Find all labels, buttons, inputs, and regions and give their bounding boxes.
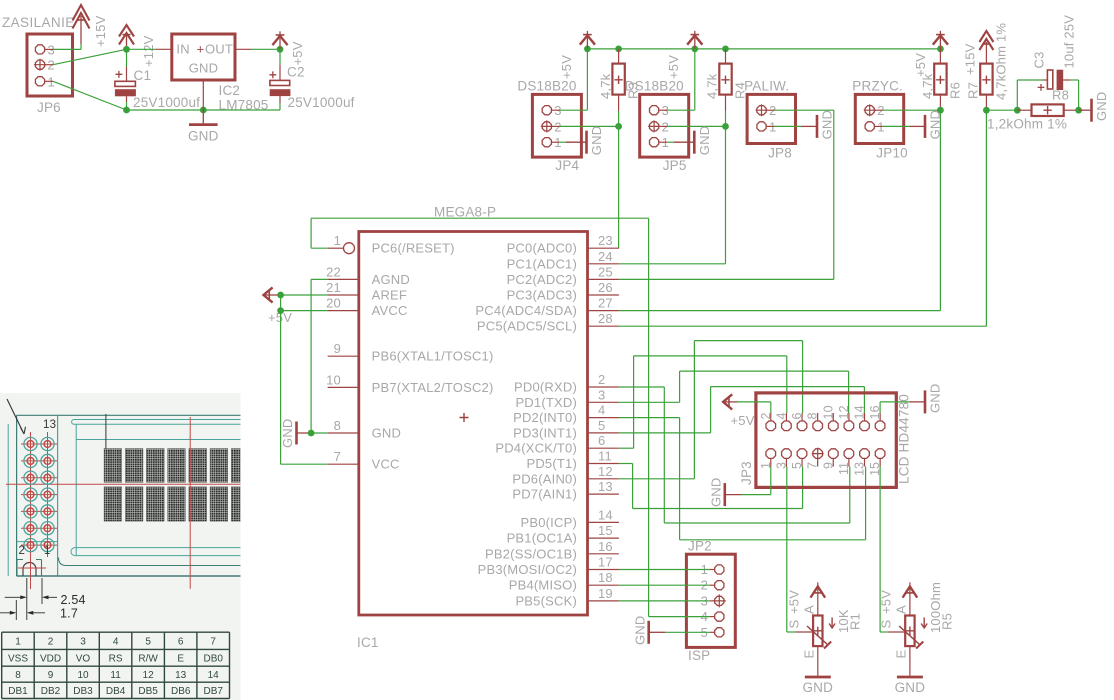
IC1 pin 22 lead [328, 278, 359, 280]
wire PD4 out [619, 447, 634, 449]
R7 top lead [985, 42, 987, 64]
svg-text:PD1(TXD): PD1(TXD) [515, 395, 577, 410]
JP5 pin2 lead [659, 125, 667, 127]
JP3 pin 14 [860, 421, 870, 431]
svg-text:14: 14 [598, 507, 613, 522]
svg-text:PC5(ADC5/SCL): PC5(ADC5/SCL) [477, 319, 577, 334]
svg-text:GND: GND [280, 419, 295, 449]
svg-text:6: 6 [178, 637, 184, 648]
svg-text:9: 9 [334, 341, 341, 356]
svg-text:DB1: DB1 [8, 686, 28, 697]
supply +5V arrow (AREF, pointing left) [265, 294, 278, 296]
svg-text:DB0: DB0 [203, 654, 223, 665]
svg-text:JP5: JP5 [663, 158, 687, 173]
IC1 pin 24 lead [588, 263, 619, 265]
IC1 pin 12 lead [588, 478, 619, 480]
IC1 pin 8 lead [328, 432, 359, 434]
svg-text:PB2(SS/OC1B): PB2(SS/OC1B) [485, 546, 577, 561]
svg-text:A: A [801, 605, 816, 614]
JP3 pin 14 lead [864, 413, 866, 421]
svg-text:+5V: +5V [559, 55, 574, 79]
svg-text:12: 12 [837, 405, 851, 419]
svg-text:R/W: R/W [138, 654, 158, 665]
wire PD2 rail [680, 539, 866, 541]
wire PB4 MISO to ISP2 [619, 584, 710, 586]
svg-text:2: 2 [598, 372, 605, 387]
IC1 pin 10 lead [328, 386, 359, 388]
wire PD1 up [679, 371, 681, 402]
svg-text:4: 4 [113, 637, 119, 648]
R1 S lead [796, 631, 814, 633]
wire down to JP3 pin 14 [863, 387, 865, 413]
svg-text:LCD HD44780: LCD HD44780 [897, 394, 912, 484]
JP3 pin 4 [782, 421, 792, 431]
svg-text:19: 19 [598, 586, 613, 601]
svg-text:JP10: JP10 [876, 146, 908, 161]
svg-text:5: 5 [790, 462, 804, 469]
wire JP5.3 to +5V [667, 109, 695, 111]
IC1 origin cross [460, 413, 469, 422]
JP4 pin 2 [542, 122, 551, 131]
svg-text:PD3(INT1): PD3(INT1) [513, 425, 577, 440]
wire down to JP3 pin 2 [770, 402, 772, 413]
svg-text:IN: IN [176, 42, 189, 57]
svg-text:AGND: AGND [372, 272, 410, 287]
R3 bottom lead [618, 95, 620, 111]
R3 top lead [618, 49, 620, 64]
capacitor C3 [1047, 70, 1052, 89]
svg-text:PALIW.: PALIW. [744, 79, 789, 94]
JP3 pin 9 lead [832, 458, 834, 466]
wire from C3 right [1070, 79, 1078, 81]
C3 polarity + [1038, 84, 1045, 91]
supply +15V symbol [80, 16, 82, 44]
svg-text:PRZYC.: PRZYC. [852, 79, 903, 94]
wire PD6 across [694, 340, 802, 342]
R5 origin cross [906, 627, 914, 635]
wire JP3 pin16 up [879, 402, 881, 413]
ground [723, 483, 726, 506]
svg-text:E: E [801, 650, 816, 659]
svg-text:LM7805: LM7805 [219, 98, 269, 113]
R5 E lead [909, 646, 911, 676]
svg-text:PD5(T1): PD5(T1) [526, 456, 577, 471]
wire reset to pin1 [311, 247, 328, 249]
svg-text:+5V: +5V [913, 53, 928, 77]
R8 left lead [1017, 109, 1031, 111]
JP8 pin 2 [757, 106, 766, 115]
svg-text:ISP: ISP [688, 648, 710, 663]
R1 E lead [817, 646, 819, 676]
svg-text:PB1(OC1A): PB1(OC1A) [507, 531, 577, 546]
JP3 pin 3 lead [785, 458, 787, 466]
wire PD1 across [680, 370, 849, 372]
wire JP6.1 to GND rail (diagonal) [53, 81, 127, 110]
svg-text:PB3(MOSI/OC2): PB3(MOSI/OC2) [478, 562, 577, 577]
wire JP5 data down to PC1 [725, 126, 727, 263]
wire PD4 across [634, 355, 787, 357]
IC1 pin 13 lead [588, 493, 619, 495]
+5V arrow (R6) [939, 31, 941, 49]
R6 top lead [939, 49, 941, 64]
wire R7 to R8 [986, 109, 1017, 111]
wire AGND down to GND [310, 279, 312, 433]
JP2 pin 1 lead [710, 569, 715, 571]
svg-text:GND: GND [633, 616, 648, 646]
svg-text:4,7k: 4,7k [598, 73, 613, 99]
ground GND at R8 [1079, 109, 1091, 111]
LCD pin pads [21, 443, 57, 445]
svg-text:6: 6 [598, 433, 605, 448]
JP10 pin 2 [865, 106, 874, 115]
wire PD6 up [693, 341, 695, 479]
svg-text:5: 5 [145, 637, 151, 648]
capacitor C1 [115, 81, 135, 86]
capacitor C2 [270, 80, 290, 85]
svg-text:+5V: +5V [666, 55, 681, 79]
svg-text:4,7k: 4,7k [920, 73, 935, 99]
svg-text:AVCC: AVCC [372, 303, 408, 318]
wire JP3 pin1 left [741, 494, 770, 496]
wire JP8.1 to GND [775, 125, 803, 127]
JP3 pin 11 lead [848, 458, 850, 466]
JP3 pin 10 lead [832, 413, 834, 421]
wire down to JP3 pin 6 [802, 341, 804, 413]
IC2 GND pin [202, 80, 204, 110]
wire +5V to JP3 pin2 col [737, 401, 771, 403]
wire JP4 data down to PC0 [618, 126, 620, 248]
LCD centerlines [6, 483, 241, 485]
svg-text:1: 1 [15, 637, 21, 648]
svg-text:DS18B20: DS18B20 [517, 79, 576, 94]
svg-text:1: 1 [334, 233, 341, 248]
ground GND at JP10 [910, 125, 925, 127]
ground GND at JP8 [802, 125, 817, 127]
junction JP4 data/R3 [615, 123, 622, 130]
junction +5V arrow 2 [691, 46, 698, 53]
JP3 pin 6 lead [801, 413, 803, 421]
svg-text:13: 13 [853, 462, 867, 476]
wire PD4 up [633, 356, 635, 448]
wire +5V riser JP4 [586, 49, 588, 110]
JP3 pin 2 lead [770, 413, 772, 421]
LCD dot matrix characters [104, 449, 122, 483]
junction R7/R8 [983, 107, 990, 114]
JP2 pin 4 lead [710, 616, 715, 618]
svg-text:+: + [197, 42, 205, 57]
wire up to JP3 pin 11 [849, 467, 851, 524]
svg-text:GND: GND [1094, 92, 1109, 122]
svg-text:PC6(/RESET): PC6(/RESET) [372, 241, 455, 256]
supply +5V arrow (R1) [813, 592, 822, 594]
svg-text:3: 3 [80, 637, 86, 648]
JP3 origin cross [812, 448, 824, 460]
R5 adjust arrow [921, 618, 927, 629]
wire down to JP3 pin 4 [786, 356, 788, 413]
wire to C1 [126, 49, 128, 67]
wire JP3 pin16 to GND [880, 401, 910, 403]
JP2 pin 4 [715, 612, 724, 621]
IC1 pin 14 lead [588, 521, 619, 523]
wire PB5 SCK to ISP3 [619, 600, 710, 602]
svg-text:GND: GND [189, 61, 219, 76]
svg-text:+15V: +15V [963, 43, 978, 75]
JP8 pin 1 [757, 122, 766, 131]
svg-text:VDD: VDD [40, 654, 61, 665]
svg-text:10: 10 [821, 405, 835, 419]
svg-text:25V1000uf: 25V1000uf [133, 95, 200, 110]
R6 bottom lead [939, 95, 941, 111]
svg-text:13: 13 [175, 670, 187, 681]
svg-text:14: 14 [208, 670, 220, 681]
svg-text:PD4(XCK/T0): PD4(XCK/T0) [495, 441, 577, 456]
svg-text:8: 8 [15, 670, 21, 681]
svg-text:18: 18 [598, 570, 613, 585]
JP3 pin 1 lead [770, 458, 772, 466]
svg-text:PD2(INT0): PD2(INT0) [513, 410, 577, 425]
svg-text:12: 12 [598, 464, 613, 479]
wire AGND [311, 278, 328, 280]
JP3 pin 1 [766, 449, 776, 459]
ground [647, 621, 650, 644]
JP2 pin 5 [715, 628, 724, 637]
svg-text:PC2(ADC2): PC2(ADC2) [507, 272, 577, 287]
R1 A lead [817, 582, 819, 615]
IC1 pin 23 lead [588, 247, 619, 249]
svg-text:5: 5 [598, 418, 605, 433]
svg-text:9: 9 [48, 670, 54, 681]
svg-text:GND: GND [589, 126, 604, 156]
LCD pin 13 leader [7, 399, 26, 434]
junction R3 top [615, 46, 622, 53]
wire PD1 out [619, 401, 680, 403]
IC1 pin 17 lead [588, 569, 619, 571]
R5 body [905, 616, 914, 647]
IC1 pin 9 lead [328, 355, 359, 357]
connector JP10 (PRZYC.) [855, 94, 903, 143]
svg-text:S: S [786, 620, 801, 629]
IC1 pin 5 lead [588, 432, 619, 434]
svg-text:2.54: 2.54 [61, 593, 86, 607]
+15V supply arrow [979, 31, 993, 42]
JP8 pin2 lead [766, 109, 774, 111]
C3 left lead [1043, 79, 1048, 81]
svg-text:GND: GND [928, 384, 943, 414]
wire +5V riser JP5 [694, 49, 696, 110]
R8 right lead [1064, 109, 1079, 111]
JP6 pin 3 [35, 45, 44, 54]
svg-text:27: 27 [598, 296, 613, 311]
R5 S lead [888, 631, 906, 633]
connector JP2 (ISP) [686, 554, 735, 647]
JP5 pin 1 [650, 138, 659, 147]
resistor R6 4.7k pullup [934, 64, 946, 95]
JP3 pin 9 [829, 449, 839, 459]
svg-text:VO: VO [76, 654, 91, 665]
supply +5V arrow (R5) [905, 592, 914, 594]
svg-text:22: 22 [326, 264, 341, 279]
svg-text:7: 7 [806, 462, 820, 469]
junction JP5 data/R4 [722, 123, 729, 130]
junction R8 right/C3 [1075, 107, 1082, 114]
wire PC2 to JP8 column [619, 278, 834, 280]
wire PD3 up [710, 387, 712, 433]
R4 bottom lead [725, 95, 727, 111]
IC1 pin 18 lead [588, 584, 619, 586]
JP5 pin 3 [650, 106, 659, 115]
IC1 pin 7 lead [328, 463, 359, 465]
JP2 origin cross [713, 594, 726, 607]
svg-text:14: 14 [853, 405, 867, 419]
svg-text:MEGA8-P: MEGA8-P [434, 205, 496, 220]
resistor R7 4.7kOhm [980, 64, 992, 95]
JP3 pin 13 lead [864, 458, 866, 466]
svg-text:7: 7 [334, 449, 341, 464]
+15V arrow [73, 5, 90, 21]
JP2 pin 3 [715, 596, 724, 605]
wire C3 branch up [1016, 80, 1018, 110]
JP8 pin1 lead [766, 125, 774, 127]
JP3 pin 2 [766, 421, 776, 431]
svg-text:13: 13 [43, 419, 56, 431]
wire up to JP3 pin 5 [802, 467, 804, 509]
svg-text:C2: C2 [287, 65, 305, 80]
wire IC2 OUT to +5V node [252, 48, 280, 50]
junction AVCC [277, 307, 284, 314]
ground GND at JP4 [566, 141, 586, 143]
IC1 pin 11 lead [588, 463, 619, 465]
ground [816, 115, 819, 138]
svg-text:GND: GND [372, 426, 402, 441]
svg-text:GND: GND [802, 680, 833, 695]
svg-text:28: 28 [598, 311, 613, 326]
svg-text:17: 17 [598, 555, 613, 570]
svg-text:JP6: JP6 [37, 100, 61, 115]
wire PD5 out [619, 463, 633, 465]
wire PC4 to JP10 column [619, 310, 941, 312]
junction +12V node [123, 46, 130, 53]
wire PD5 down [632, 464, 634, 509]
R3 origin cross [614, 76, 622, 84]
JP4 pin1 lead [551, 141, 559, 143]
junction GND pin8 [308, 430, 315, 437]
wire JP6.3 to +15V [53, 48, 81, 50]
wire PD6 out [619, 478, 695, 480]
junction IC2 GND [200, 107, 207, 114]
JP3 pin 8 lead [817, 413, 819, 421]
svg-text:+5V: +5V [786, 590, 801, 614]
svg-text:4,7k: 4,7k [705, 73, 720, 99]
JP10 origin cross [864, 104, 876, 116]
IC1 pin 21 lead [328, 294, 359, 296]
R1 wiper diagonal [807, 626, 828, 645]
JP4 origin cross [541, 120, 553, 132]
JP5 pin1 lead [659, 141, 667, 143]
svg-text:4: 4 [774, 412, 788, 419]
ground [1090, 99, 1093, 122]
JP2 pin 1 [715, 565, 724, 574]
wire to C2 [279, 49, 281, 64]
JP3 pin 12 lead [848, 413, 850, 421]
JP3 pin 8 [813, 421, 823, 431]
svg-text:OUT: OUT [205, 42, 233, 57]
svg-text:25: 25 [598, 264, 613, 279]
connector JP5 (DS18B20) [640, 94, 689, 157]
wire C1 to GND rail [126, 102, 128, 110]
wire C2 to GND rail [279, 103, 281, 110]
svg-text:7: 7 [210, 637, 216, 648]
wire JP4.1 to GND [560, 141, 566, 143]
ground [295, 422, 298, 445]
wire JP5.2 data [667, 125, 725, 127]
JP3 pin 10 [829, 421, 839, 431]
R5 A lead [909, 582, 911, 615]
JP3 pin 15 lead [879, 458, 881, 466]
svg-text:+15V: +15V [93, 15, 108, 47]
junction R4 top [722, 46, 729, 53]
junction R8 left/C3 [1014, 107, 1021, 114]
svg-text:PD7(AIN1): PD7(AIN1) [512, 487, 577, 502]
svg-text:PD0(RXD): PD0(RXD) [514, 380, 577, 395]
svg-text:8: 8 [806, 412, 820, 419]
+12V arrow [119, 25, 134, 37]
wire R4 to JP5.2 node [725, 111, 727, 126]
R8 origin cross [1043, 106, 1051, 114]
wire JP10 down to PC4 [939, 110, 941, 310]
ground GND at JP5 [674, 141, 694, 143]
LCD pin assignment table [2, 632, 230, 698]
wire PD3 across [711, 386, 865, 388]
wire GND pin8 [311, 432, 328, 434]
svg-text:+5V: +5V [878, 590, 893, 614]
IC1 pin 15 lead [588, 537, 619, 539]
connector JP8 (PALIW.) [747, 94, 795, 143]
JP3 pin 4 lead [785, 413, 787, 421]
svg-text:DB7: DB7 [203, 686, 223, 697]
resistor R3 4.7k pullup [612, 64, 624, 95]
JP3 pin 6 [797, 421, 807, 431]
svg-text:12: 12 [143, 670, 155, 681]
IC1 pin 16 lead [588, 553, 619, 555]
JP3 pin 5 lead [801, 458, 803, 466]
wire AREF [281, 294, 328, 296]
JP6 pin 2 [35, 60, 44, 69]
ground [924, 115, 927, 138]
svg-text:20: 20 [326, 296, 341, 311]
C1 polarity + [116, 71, 123, 78]
R6 origin cross [936, 76, 944, 84]
JP3 pin 16 lead [879, 413, 881, 421]
svg-text:PC1(ADC1): PC1(ADC1) [507, 256, 577, 271]
junction +5V arrow 1 [584, 46, 591, 53]
svg-text:10uf 25V: 10uf 25V [1062, 15, 1077, 69]
svg-text:25V1000uf: 25V1000uf [288, 95, 355, 110]
JP3 pin 12 [844, 421, 854, 431]
svg-text:2: 2 [19, 545, 26, 557]
svg-text:GND: GND [895, 680, 926, 695]
R4 origin cross [721, 76, 729, 84]
svg-text:IC2: IC2 [219, 83, 241, 98]
JP6 pin 3 lead [45, 48, 53, 50]
svg-text:11: 11 [598, 449, 612, 464]
svg-text:R7: R7 [966, 82, 981, 99]
ground GND at IC1 pin 8 [297, 432, 311, 434]
+5V arrow at C2 [279, 31, 281, 49]
+5V arrow (JP5) [694, 31, 696, 49]
wire JP8 signal down to PC2 [833, 110, 835, 279]
svg-text:DB6: DB6 [171, 686, 191, 697]
svg-text:+5V: +5V [290, 41, 305, 65]
